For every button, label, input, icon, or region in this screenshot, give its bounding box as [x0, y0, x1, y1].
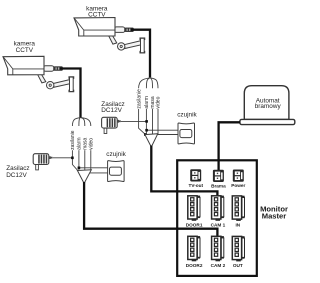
power supply Zasilacz DC12V #1	[102, 117, 121, 133]
svg-text:video: video	[89, 138, 95, 150]
junction czujnik1 alarm	[145, 129, 148, 132]
wire czujnik1 masa	[145, 134, 178, 136]
wire automat to Brama	[219, 122, 241, 170]
camera CCTV top	[74, 18, 145, 54]
svg-text:OUT: OUT	[233, 263, 243, 268]
wire bundle1 hook zasilanie	[139, 78, 150, 88]
wire bundle2 hook masa	[81, 118, 85, 126]
svg-text:DC12V: DC12V	[101, 107, 122, 114]
gate controller Automat bramowy	[244, 86, 289, 120]
svg-text:CAM 2: CAM 2	[211, 263, 226, 268]
svg-text:Master: Master	[262, 211, 287, 220]
svg-text:DOOR1: DOOR1	[186, 223, 203, 228]
connector OUT	[232, 236, 244, 261]
wire czujnik2 masa	[85, 172, 108, 174]
wire bundle1 hook masa	[150, 78, 152, 88]
svg-text:zasilanie: zasilanie	[136, 89, 142, 109]
connector DOOR2	[188, 236, 200, 261]
wire camera1 cable to trunk	[131, 30, 150, 78]
power supply Zasilacz DC12V #2	[33, 154, 52, 170]
funnel bundle2	[77, 170, 91, 184]
svg-text:bramowy: bramowy	[255, 103, 282, 110]
svg-text:CCTV: CCTV	[16, 47, 34, 54]
junction adapter1	[145, 120, 148, 123]
svg-text:DOOR2: DOOR2	[186, 263, 203, 268]
wire bundle2 masa lower	[84, 150, 86, 170]
svg-text:CAM 1: CAM 1	[211, 223, 226, 228]
wire czujnik2 alarm	[79, 167, 108, 169]
connector IN	[232, 196, 244, 221]
wire bundle1 zasilanie lower	[139, 109, 146, 134]
connector CAM 2	[212, 236, 224, 261]
wire bundle1 hook video	[151, 78, 159, 88]
wire czujnik1 alarm	[147, 129, 178, 131]
sensor czujnik #1	[178, 123, 195, 144]
wire bundle1 video lower	[157, 109, 159, 134]
svg-text:IN: IN	[235, 223, 240, 228]
junction czujnik1 masa	[144, 133, 147, 136]
wire bundle2 alarm lower	[78, 150, 80, 170]
connector Brama	[213, 170, 224, 182]
junction czujnik2 masa	[84, 172, 87, 175]
svg-text:TV-out: TV-out	[189, 183, 204, 188]
connector Power	[233, 170, 244, 182]
svg-text:alarm: alarm	[144, 96, 150, 109]
wire bundle2 hook alarm	[79, 118, 80, 126]
wire bundle1 to CAM1	[151, 146, 217, 197]
junction adapter2	[71, 157, 74, 160]
connector DOOR1	[188, 196, 200, 221]
wire bundle1 hook alarm	[146, 78, 149, 88]
wire camera2 cable to trunk	[60, 69, 81, 118]
svg-text:czujnik: czujnik	[106, 151, 126, 158]
wire bundle2 to CAM2	[84, 182, 217, 237]
funnel bundle1	[145, 134, 158, 147]
svg-text:DC12V: DC12V	[6, 172, 27, 179]
monitor box	[177, 160, 257, 276]
junction czujnik2 alarm	[78, 167, 81, 170]
wire bundle1 alarm lower	[145, 109, 147, 134]
wire bundle2 hook video	[81, 118, 91, 126]
sensor czujnik #2	[108, 161, 125, 182]
wire adapter1 to zasilanie	[121, 120, 147, 122]
wire adapter2 to zasilanie	[53, 157, 73, 159]
connector TV-out	[190, 169, 201, 181]
wire bundle2 video lower	[90, 150, 92, 170]
svg-text:czujnik: czujnik	[177, 111, 197, 118]
wire bundle1 masa lower	[152, 109, 154, 134]
wire bundle2 hook zasilanie	[72, 118, 80, 126]
camera CCTV left	[3, 56, 74, 92]
connector CAM 1	[212, 196, 224, 221]
svg-text:zasilanie: zasilanie	[70, 130, 76, 150]
svg-text:Brama: Brama	[211, 183, 226, 188]
wire bundle2 zasilanie lower	[72, 150, 77, 170]
svg-text:Power: Power	[231, 183, 245, 188]
svg-text:video: video	[156, 96, 162, 108]
